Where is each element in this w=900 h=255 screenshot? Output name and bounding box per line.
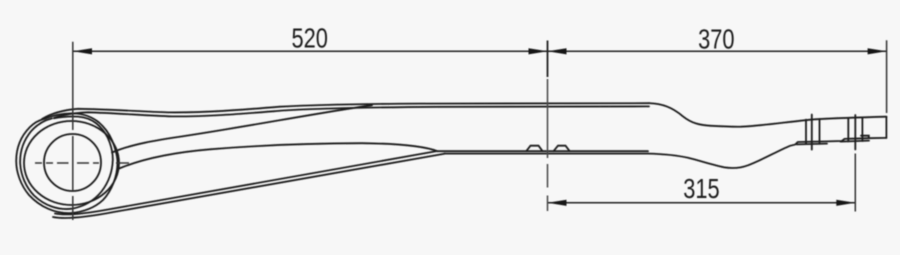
clamp bump 1 — [526, 146, 542, 152]
extension line 315 right x=855.6 — [854, 154, 856, 212]
eye vertical center line / 520 extension line — [72, 42, 74, 220]
groove line B3 — [861, 118, 863, 141]
taper line lower (hump to band) — [118, 143, 438, 169]
band bottom line — [444, 153, 648, 155]
spring eye outer ring (ellipse) — [24, 121, 119, 205]
taper line upper (to top pair) — [112, 105, 372, 152]
groove line A1 — [805, 120, 807, 144]
eye horizontal center line — [35, 162, 129, 164]
bottom diagonal lower — [53, 154, 445, 218]
tip right end edge — [885, 117, 887, 138]
extension line at x=547 (solid upper part) — [547, 41, 549, 78]
dimension line 370 — [548, 50, 887, 52]
top edge line B — [54, 106, 649, 118]
band top line — [437, 150, 648, 152]
dimension line 315 — [548, 202, 856, 204]
neck bottom S-curve to tip underside staircase — [648, 138, 886, 168]
clamp bump 2 — [554, 146, 570, 152]
pedestal bottom line B — [841, 141, 870, 142]
tip end notch mark — [861, 136, 869, 138]
arrowhead 520 right — [529, 48, 548, 54]
arrowhead 370 left — [548, 48, 567, 54]
svg-text:520: 520 — [291, 23, 327, 54]
svg-text:370: 370 — [698, 24, 734, 55]
eye wrap inner spiral — [20, 116, 113, 209]
top edge line A — [42, 103, 649, 119]
spring eye bore circle — [44, 134, 101, 191]
arrowhead 370 right — [868, 48, 887, 54]
extension line right end x=886.6 — [886, 40, 888, 113]
extension line at x=547 (dashed lower part) — [547, 79, 549, 211]
groove line B2 (long) — [854, 115, 856, 150]
arrowhead 315 left — [548, 200, 567, 206]
eye wrap outer spiral — [16, 113, 117, 213]
arrowhead 315 right — [836, 200, 855, 206]
neck top S-curve to tip top edge — [649, 103, 887, 127]
bottom diagonal upper — [55, 151, 436, 214]
dimension line 520 — [73, 51, 887, 203]
arrowhead 520 left — [73, 48, 92, 54]
pedestal bottom line A — [797, 143, 828, 146]
svg-text:315: 315 — [683, 174, 719, 205]
groove line A2 (long) — [811, 115, 813, 150]
groove line B1 — [847, 119, 849, 142]
groove line A3 — [819, 119, 821, 144]
